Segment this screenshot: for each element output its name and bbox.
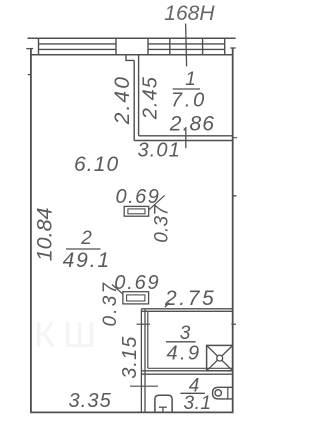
- shower drain circle: [217, 355, 223, 361]
- window band right edge: [224, 38, 226, 55]
- vent box lower inner: [127, 295, 145, 301]
- room3 top wall line a: [141, 308, 232, 310]
- svg-text:3.15: 3.15: [119, 335, 141, 378]
- window band left edge: [38, 38, 40, 55]
- outer wall left: [30, 49, 32, 413]
- dimension tick right wall y324: [231, 323, 236, 325]
- dimension tick 2.75 left: [165, 303, 169, 307]
- svg-text:6.10: 6.10: [74, 153, 119, 176]
- room3-room4 wall line b: [141, 373, 232, 375]
- shower diagonal 2: [207, 345, 233, 370]
- svg-text:7.0: 7.0: [171, 90, 207, 112]
- wall room1-room2 left line: [133, 60, 135, 140]
- wall room1-room2 right line: [138, 55, 140, 136]
- corner tick top-right: [230, 47, 235, 49]
- vent box lower outer: [123, 292, 149, 304]
- svg-text:3.35: 3.35: [69, 390, 112, 412]
- window band glazing line 1 left: [39, 43, 117, 45]
- dimension tick left wall 10.84: [28, 74, 32, 76]
- room1 bottom wall inner line: [139, 135, 233, 137]
- svg-text:1: 1: [185, 69, 197, 90]
- room3 label fraction bar: [166, 341, 196, 343]
- dimension tick right of room1 bottom wall: [233, 137, 237, 139]
- window band pier left edge: [115, 38, 117, 55]
- sink divider: [227, 387, 229, 399]
- room1 bottom wall outer line: [134, 140, 233, 142]
- svg-text:0.37: 0.37: [151, 204, 172, 243]
- window band pier right edge: [147, 38, 149, 55]
- window band mullion 2: [202, 38, 204, 55]
- svg-text:168Н: 168Н: [164, 2, 215, 25]
- svg-text:КШ: КШ: [34, 314, 104, 355]
- svg-text:3: 3: [180, 323, 192, 344]
- window band glazing line 2 left: [39, 48, 117, 50]
- wall rooms3-4 left line b: [144, 309, 146, 413]
- window band mullion 1: [169, 38, 171, 55]
- room3 inner west edge: [147, 311, 149, 368]
- svg-text:2.40: 2.40: [111, 75, 134, 125]
- dimension tick on wall y386: [130, 385, 158, 387]
- svg-text:0.69: 0.69: [114, 272, 160, 294]
- dimension tick between 2.86 and 3.01: [185, 127, 187, 148]
- room2 label fraction bar: [66, 248, 101, 250]
- sink outline: [213, 387, 233, 399]
- room3-room4 wall line a: [141, 370, 232, 372]
- wall rooms3-4 left line a: [140, 309, 142, 413]
- leader from title to room 1: [186, 24, 187, 67]
- shower tray: [207, 345, 233, 370]
- svg-text:4.9: 4.9: [167, 343, 202, 365]
- room3 inner south edge: [148, 367, 233, 369]
- svg-text:2.86: 2.86: [169, 112, 215, 135]
- svg-text:0.69: 0.69: [116, 186, 161, 208]
- window band bottom line: [31, 54, 233, 56]
- outer wall right: [232, 48, 234, 413]
- toilet flush stem: [162, 407, 164, 412]
- outer wall bottom: [30, 411, 233, 413]
- svg-text:3.01: 3.01: [138, 140, 181, 162]
- shower diagonal 1: [207, 345, 233, 370]
- toilet flush bar: [159, 406, 167, 408]
- vent box upper leader: [149, 195, 165, 210]
- vent box upper inner: [128, 209, 145, 214]
- svg-text:2.75: 2.75: [164, 287, 216, 310]
- window band glazing line 1 right: [148, 43, 225, 45]
- vent box lower leader: [112, 285, 123, 295]
- corner tick top-left: [26, 48, 33, 50]
- vent box upper outer: [124, 206, 149, 216]
- window band top line: [28, 37, 236, 39]
- dimension tick right wall: [233, 195, 237, 197]
- toilet: [155, 395, 172, 412]
- sink bowl circle: [215, 390, 221, 396]
- svg-text:2.45: 2.45: [140, 76, 162, 120]
- room3 top wall line b: [141, 310, 232, 312]
- svg-text:10.84: 10.84: [33, 207, 57, 261]
- title 168Н: [164, 2, 215, 25]
- room1 label fraction bar: [173, 88, 200, 90]
- window band glazing line 2 right: [148, 48, 225, 50]
- room4 label fraction bar: [180, 392, 204, 394]
- wall room1-room2 jog: [126, 55, 134, 61]
- svg-text:3.1: 3.1: [184, 393, 212, 414]
- svg-text:49.1: 49.1: [63, 249, 111, 272]
- svg-text:0.37: 0.37: [100, 281, 121, 327]
- svg-text:2: 2: [80, 228, 93, 249]
- dimension tick on wall y324: [137, 323, 151, 325]
